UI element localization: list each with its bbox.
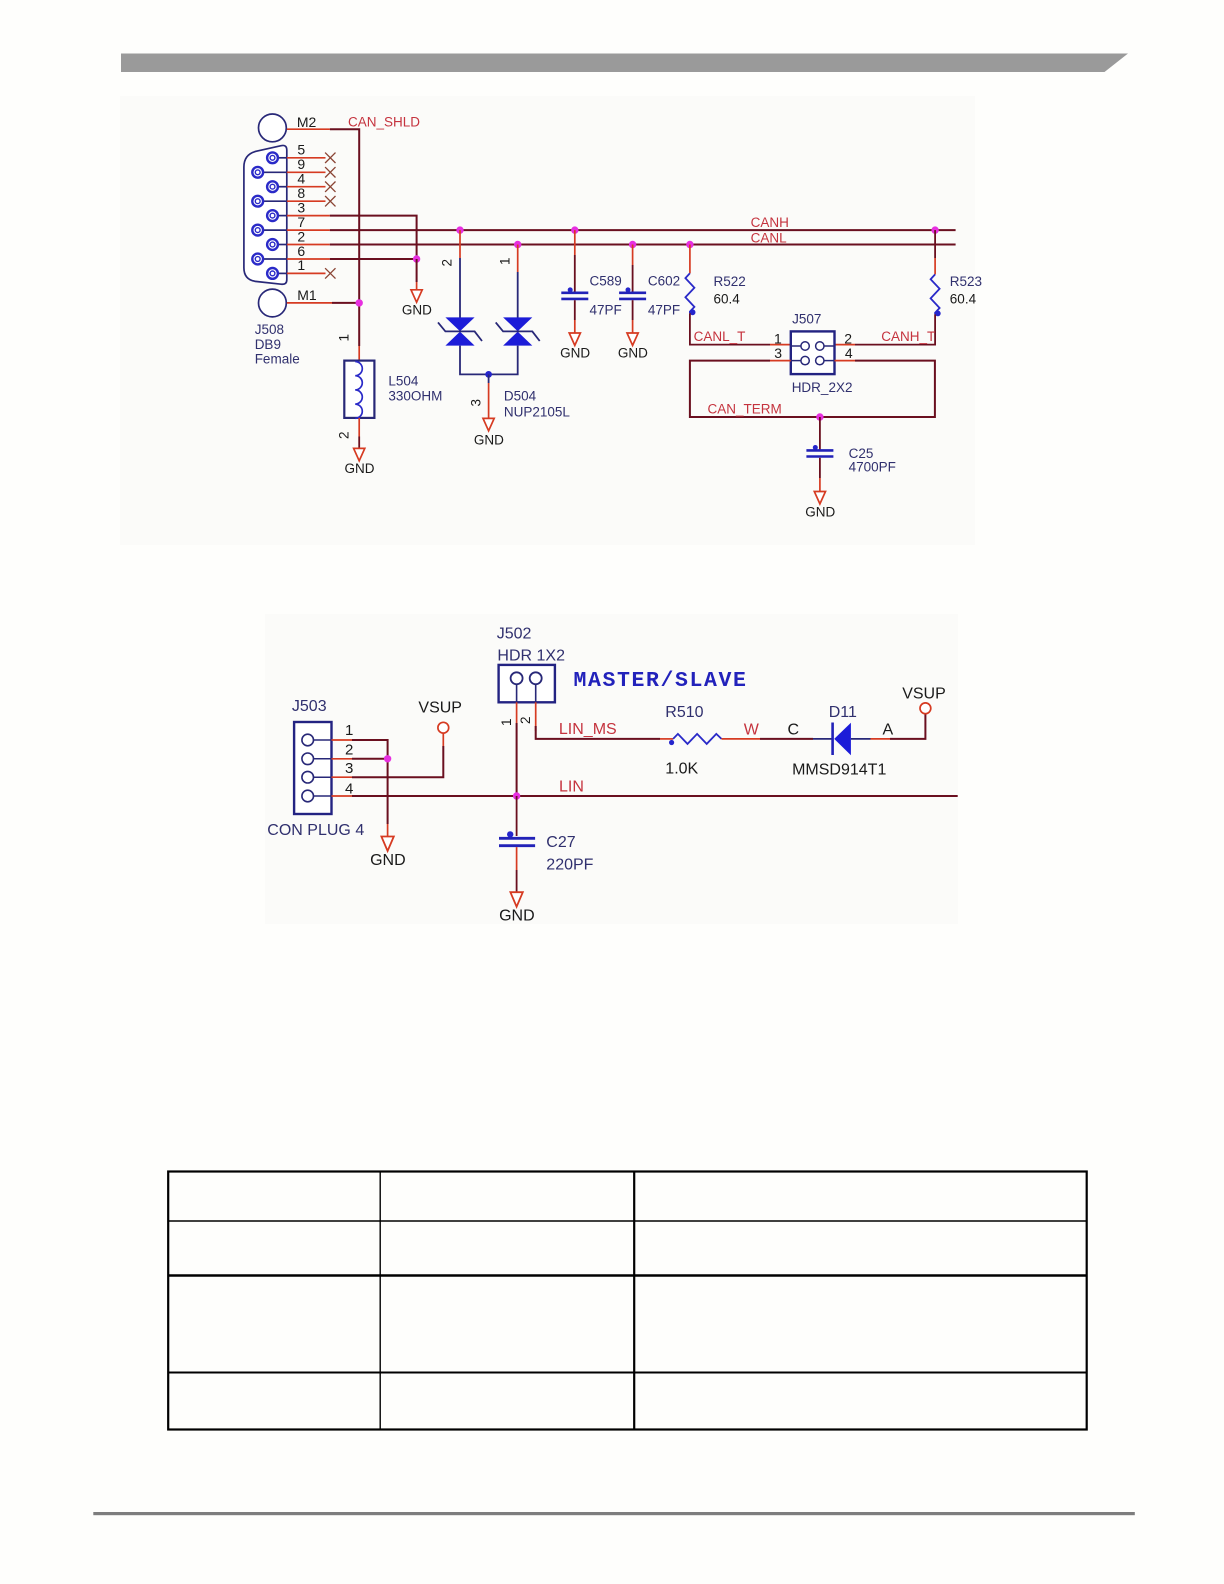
wire CAN_SHLD: [330, 129, 359, 346]
J508 pin 2: [267, 239, 287, 250]
wire to GND (J503): [387, 824, 389, 837]
capacitor C602: [619, 245, 646, 334]
svg-text:60.4: 60.4: [714, 292, 741, 307]
ground symbol (C27): [510, 892, 522, 907]
wire junction to GND: [416, 259, 418, 290]
junction CANH / R523: [931, 226, 938, 233]
J503 pin numbers: [345, 722, 353, 797]
wire J502 pin1 to LIN: [516, 702, 518, 796]
wire pin2: [352, 758, 388, 760]
svg-text:47PF: 47PF: [648, 303, 680, 318]
svg-text:MMSD914T1: MMSD914T1: [792, 762, 886, 779]
svg-text:CANL_T: CANL_T: [694, 329, 746, 344]
resistor R522: [685, 245, 790, 345]
ground symbol (C602): [627, 333, 638, 345]
no-connect X pin 8: [325, 196, 335, 206]
wire CANL: [330, 244, 956, 246]
svg-text:CAN_TERM: CAN_TERM: [708, 401, 782, 416]
svg-text:VSUP: VSUP: [902, 686, 946, 703]
svg-text:W: W: [744, 722, 760, 739]
wire D11 to VSUP: [871, 714, 926, 739]
svg-text:1: 1: [345, 722, 353, 739]
svg-text:47PF: 47PF: [590, 303, 622, 318]
svg-text:L504: L504: [388, 374, 419, 389]
svg-text:3: 3: [345, 760, 353, 777]
VSUP symbol (D11): [920, 703, 931, 714]
svg-text:C602: C602: [648, 274, 680, 289]
J508 pin 6: [252, 254, 286, 265]
no-connect X pin 9: [325, 167, 335, 177]
ground symbol (J503): [381, 837, 393, 852]
svg-text:CAN_SHLD: CAN_SHLD: [348, 114, 420, 129]
svg-text:220PF: 220PF: [546, 857, 593, 874]
no-connect X pin 4: [325, 182, 335, 192]
svg-text:J503: J503: [292, 698, 327, 715]
header banner bar: [121, 54, 1128, 73]
J508 refdes: [255, 322, 300, 367]
svg-text:LIN: LIN: [559, 779, 584, 796]
svg-text:Female: Female: [255, 352, 300, 367]
svg-text:4: 4: [345, 780, 353, 797]
svg-text:D11: D11: [829, 704, 857, 721]
svg-text:GND: GND: [402, 303, 432, 318]
ground symbol (DB9 pins 3/6): [411, 290, 422, 302]
connector J508 mounting hole M1: [259, 289, 287, 317]
connector J508 mounting hole M2: [259, 114, 287, 142]
wire CAN_TERM loop: [690, 361, 935, 417]
svg-text:C: C: [788, 722, 800, 739]
svg-text:1: 1: [337, 334, 352, 342]
ground symbol (C25): [814, 492, 825, 504]
header J502: [499, 665, 555, 702]
capacitor C25: [806, 417, 833, 492]
wire CANH: [330, 229, 956, 231]
J508 pin 8: [252, 196, 286, 207]
svg-text:M2: M2: [297, 114, 317, 130]
junction CANH / C589: [571, 226, 578, 233]
junction CAN_TERM / C25: [816, 413, 823, 420]
svg-text:GND: GND: [560, 346, 590, 361]
svg-text:2: 2: [518, 716, 533, 724]
svg-text:GND: GND: [345, 461, 375, 476]
J508 pin 7: [252, 225, 286, 236]
ground symbol (C589): [569, 333, 580, 345]
svg-text:D504: D504: [504, 389, 537, 404]
svg-text:2: 2: [337, 432, 352, 440]
wire pin3 to GND: [330, 216, 417, 259]
diode D11: [813, 723, 871, 756]
svg-text:330OHM: 330OHM: [388, 388, 442, 403]
svg-text:DB9: DB9: [255, 337, 281, 352]
no-connect X pin 5: [325, 153, 335, 163]
wire pin3 to VSUP: [352, 746, 443, 777]
junction CANL / D504 pin1: [514, 241, 521, 248]
svg-text:GND: GND: [474, 433, 504, 448]
svg-text:3: 3: [469, 399, 484, 407]
schematic block backgrounds: [120, 96, 975, 545]
junction CANL / R522: [686, 241, 693, 248]
ground symbol (D504): [483, 418, 494, 430]
svg-text:CANL: CANL: [751, 230, 788, 245]
capacitor C27: [499, 796, 535, 892]
svg-text:GND: GND: [370, 852, 406, 869]
svg-text:HDR 1X2: HDR 1X2: [497, 647, 565, 664]
J507 pin numbers: [774, 331, 853, 362]
junction CANL / C602: [629, 241, 636, 248]
svg-text:VSUP: VSUP: [418, 700, 462, 717]
connector J503: [294, 722, 331, 814]
svg-text:1.0K: 1.0K: [665, 761, 698, 778]
svg-text:60.4: 60.4: [950, 292, 977, 307]
svg-text:2: 2: [345, 741, 353, 758]
svg-text:NUP2105L: NUP2105L: [504, 404, 571, 419]
svg-text:J508: J508: [255, 322, 284, 337]
svg-text:1: 1: [774, 331, 782, 347]
capacitor C589: [561, 230, 588, 333]
svg-text:4700PF: 4700PF: [849, 460, 896, 475]
svg-text:J502: J502: [497, 625, 532, 642]
TVS diode D504: [438, 230, 540, 418]
pin stubs (red): [287, 129, 332, 303]
svg-text:2: 2: [440, 259, 455, 267]
J508 pin 5: [267, 152, 287, 163]
junction pin1/pin2: [384, 755, 391, 762]
svg-text:1: 1: [498, 257, 513, 265]
J508 pin 4: [267, 181, 287, 192]
J508 pin 3: [267, 210, 287, 221]
connector J508 body: [244, 145, 287, 284]
inductor L504: [337, 334, 375, 448]
svg-text:M1: M1: [297, 287, 317, 303]
svg-text:4: 4: [845, 345, 853, 361]
svg-text:R523: R523: [950, 274, 982, 289]
wire pin1 to GND: [352, 740, 388, 824]
footer rule: [93, 1512, 1135, 1515]
VSUP symbol (J503): [438, 722, 449, 733]
J508 pin number labels: [297, 142, 305, 274]
svg-text:HDR_2X2: HDR_2X2: [792, 380, 853, 395]
table: [168, 1172, 1086, 1430]
junction M1/CAN_SHLD: [356, 299, 363, 306]
junction LIN / J502 / C27: [513, 792, 520, 799]
junction CANH / D504 pin2: [456, 226, 463, 233]
svg-text:C27: C27: [546, 834, 575, 851]
ground symbol (L504): [354, 448, 365, 460]
svg-text:CON PLUG 4: CON PLUG 4: [267, 822, 364, 839]
svg-text:CANH_T: CANH_T: [881, 329, 935, 344]
svg-text:3: 3: [774, 345, 782, 361]
wire pin6 to junction: [330, 258, 417, 260]
svg-text:R510: R510: [665, 704, 703, 721]
svg-text:GND: GND: [618, 346, 648, 361]
svg-text:MASTER/SLAVE: MASTER/SLAVE: [574, 669, 748, 693]
svg-text:J507: J507: [792, 312, 821, 327]
svg-text:GND: GND: [499, 908, 535, 925]
no-connect X pin 1: [325, 268, 335, 278]
svg-text:CANH: CANH: [751, 215, 789, 230]
svg-text:GND: GND: [805, 505, 835, 520]
wire J502 pin2 LIN_MS: [536, 702, 673, 739]
resistor R510: [669, 734, 813, 745]
J503 pin stubs: [332, 740, 353, 796]
wire LIN: [352, 795, 958, 797]
J508 pin 9: [252, 167, 286, 178]
svg-text:LIN_MS: LIN_MS: [559, 721, 617, 738]
junction pin3/pin6: [413, 255, 420, 262]
resistor R523: [835, 230, 941, 345]
svg-text:C589: C589: [590, 274, 622, 289]
J508 pin 1: [267, 268, 287, 279]
svg-text:1: 1: [499, 718, 514, 726]
svg-text:R522: R522: [714, 274, 746, 289]
svg-text:A: A: [883, 722, 894, 739]
header J507: [791, 331, 835, 374]
svg-text:2: 2: [844, 331, 852, 347]
